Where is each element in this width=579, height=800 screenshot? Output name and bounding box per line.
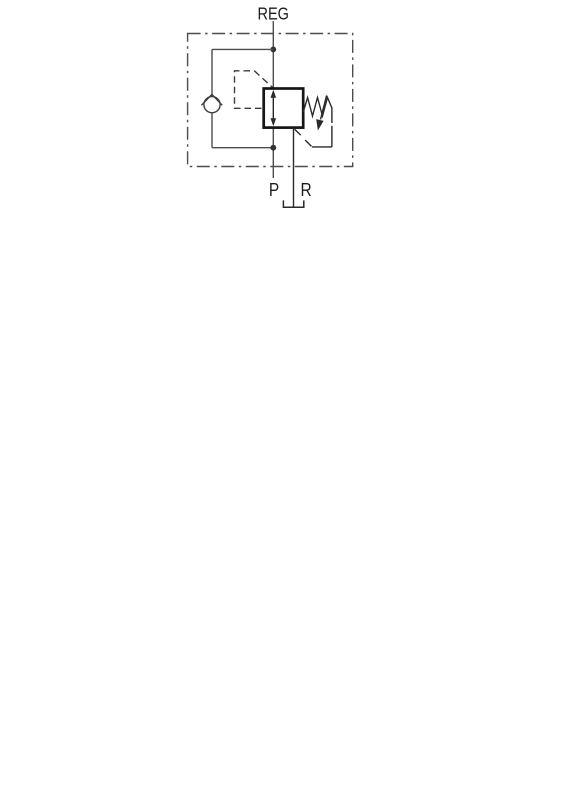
wire bypass left vertical lower bbox=[211, 113, 213, 148]
wire bypass left vertical upper bbox=[211, 49, 213, 96]
wire bypass bottom horizontal bbox=[212, 147, 273, 149]
spring bbox=[303, 98, 332, 117]
drain right vertical bbox=[331, 126, 333, 147]
wire bypass top horizontal bbox=[212, 48, 273, 50]
pilot dashed line bbox=[235, 71, 262, 109]
drain bottom horizontal bbox=[312, 146, 332, 148]
svg-text:REG: REG bbox=[258, 4, 289, 24]
check valve seat bbox=[201, 94, 222, 105]
junction bottom node bbox=[270, 145, 276, 151]
svg-text:P: P bbox=[269, 179, 279, 201]
valve flow double arrow bbox=[272, 95, 274, 122]
check valve ball bbox=[204, 97, 220, 113]
valve body square U1 bbox=[264, 89, 304, 128]
adjustment arrow bbox=[321, 95, 327, 119]
wire R line vertical bbox=[293, 128, 295, 207]
drain diagonal dashes bbox=[295, 129, 301, 135]
wire REG main vertical line bbox=[272, 21, 274, 178]
enclosure dash-dot boundary box bbox=[188, 34, 353, 167]
junction top node bbox=[270, 47, 276, 53]
svg-text:R: R bbox=[301, 179, 312, 201]
tank symbol bbox=[283, 200, 303, 207]
